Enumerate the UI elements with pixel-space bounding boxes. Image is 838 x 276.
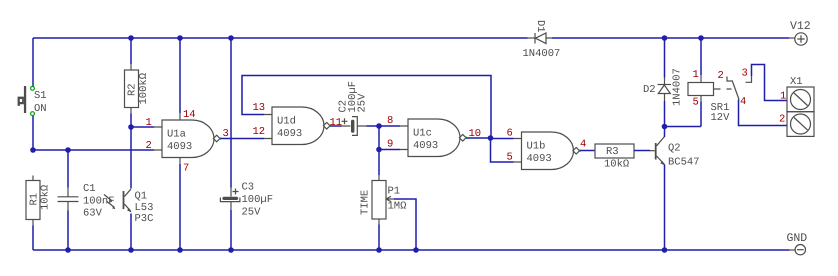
junction top rail at SR1 coil [698, 35, 704, 41]
wire junction down to U1b pin5 [491, 138, 514, 162]
svg-text:S1: S1 [34, 90, 47, 102]
wire contact pin3 to X1 pin1 [752, 65, 788, 101]
svg-text:V12: V12 [790, 20, 811, 33]
svg-text:1: 1 [780, 91, 786, 103]
supply V12 [787, 20, 811, 45]
svg-text:4093: 4093 [277, 128, 302, 140]
svg-text:25V: 25V [357, 93, 369, 113]
resistor R2 [125, 38, 151, 127]
nand gate U1a 4093 [146, 109, 229, 175]
wire node row to U1a pin2 [33, 149, 154, 151]
svg-text:12V: 12V [711, 112, 731, 124]
diode D1 1N4007 [523, 20, 561, 60]
svg-text:U1c: U1c [413, 127, 432, 139]
svg-text:63V: 63V [83, 208, 103, 220]
svg-text:1MΩ: 1MΩ [388, 201, 407, 213]
svg-text:BC547: BC547 [668, 157, 700, 169]
svg-text:C3: C3 [242, 182, 255, 194]
junction top rail at C3 [228, 35, 234, 41]
wire R3 to Q2 base [634, 150, 650, 152]
svg-text:C1: C1 [83, 183, 96, 195]
junction node row at S1/R1 [30, 147, 36, 153]
svg-text:4093: 4093 [167, 141, 192, 153]
svg-text:Q1: Q1 [135, 191, 148, 203]
junction C2 net at pin8 branch [376, 123, 382, 129]
resistor R3 [595, 144, 634, 171]
junction D2/coil/Q2 collector node [662, 124, 668, 130]
svg-text:12: 12 [253, 126, 266, 138]
relay coil SR1 [665, 38, 732, 127]
capacitor C3 [220, 38, 273, 250]
svg-text:R2: R2 [127, 83, 139, 96]
svg-text:8: 8 [387, 115, 393, 127]
svg-text:5: 5 [693, 97, 699, 109]
svg-text:1: 1 [146, 117, 152, 129]
svg-text:13: 13 [253, 102, 266, 114]
svg-text:6: 6 [507, 128, 513, 140]
svg-text:5: 5 [507, 152, 513, 164]
junction bottom rail at P1 [376, 247, 382, 253]
svg-text:14: 14 [183, 109, 196, 121]
junction bottom rail at Q2 emitter [662, 247, 668, 253]
wire R2/Q1 node to U1a pin1 [131, 126, 154, 128]
junction bottom rail at P1 wiper [413, 247, 419, 253]
svg-text:4093: 4093 [527, 153, 552, 165]
wire junction to U1b pin6 [491, 138, 514, 140]
wire Q2 collector [664, 127, 666, 138]
nand gate U1c 4093 [387, 115, 481, 157]
nand gate U1b 4093 [507, 128, 587, 170]
switch S1 [18, 86, 47, 116]
svg-text:9: 9 [387, 139, 393, 151]
svg-text:1: 1 [693, 69, 699, 81]
wire U1a pin7 to ground rail [179, 164, 181, 250]
svg-text:1N4007: 1N4007 [672, 68, 684, 106]
junction bottom rail at Q1 [128, 247, 134, 253]
wire U1c out to junction [467, 137, 491, 139]
wire U1d pin13 feedback from U1c output [242, 76, 491, 139]
junction pin9 node [376, 147, 382, 153]
resistor R1 [26, 176, 52, 226]
svg-text:U1b: U1b [527, 140, 546, 152]
junction node row at C1 [65, 147, 71, 153]
junction pin1 node [128, 124, 134, 130]
svg-text:4093: 4093 [413, 140, 438, 152]
svg-text:2: 2 [718, 70, 724, 82]
svg-text:P1: P1 [388, 186, 401, 198]
wire pin9 node to U1c pin9 [379, 149, 400, 151]
svg-text:100kΩ: 100kΩ [138, 73, 150, 105]
junction top rail at D2 [662, 35, 668, 41]
connector X1 [779, 76, 814, 136]
wire V12 top rail right segment [552, 37, 787, 39]
svg-text:4: 4 [740, 96, 746, 108]
nand gate U1d 4093 [253, 102, 343, 145]
svg-text:10kΩ: 10kΩ [604, 159, 629, 171]
junction bottom rail at C3 [228, 247, 234, 253]
svg-text:10kΩ: 10kΩ [40, 185, 52, 210]
junction top rail at R2 [128, 35, 134, 41]
svg-text:D2: D2 [643, 84, 656, 96]
svg-text:3: 3 [742, 68, 748, 80]
junction U1c output node [488, 135, 494, 141]
svg-text:D1: D1 [534, 20, 546, 33]
junction bottom rail at C1 [65, 247, 71, 253]
svg-text:11: 11 [330, 117, 343, 129]
supply GND [787, 232, 808, 255]
wire pin8 branch down to pin9 node [378, 126, 380, 150]
wire GND bottom rail [33, 226, 790, 251]
svg-text:25V: 25V [242, 207, 262, 219]
wire left vertical from rail to S1 [32, 38, 34, 87]
wire Q2 emitter to ground rail [664, 165, 666, 251]
transistor Q2 BC547 [650, 137, 700, 169]
wire V12 top rail left segment [33, 37, 528, 39]
svg-text:2: 2 [779, 114, 785, 126]
svg-text:7: 7 [183, 163, 189, 175]
svg-text:GND: GND [787, 232, 808, 245]
potentiometer P1 [360, 150, 417, 251]
svg-text:U1d: U1d [277, 115, 296, 127]
svg-text:R3: R3 [606, 146, 619, 158]
wire U1a out to U1d pin12 [221, 138, 265, 140]
junction top rail at U1a pin14 [177, 35, 183, 41]
diode D2 1N4007 [643, 38, 684, 127]
svg-text:100nF: 100nF [83, 196, 115, 208]
svg-text:P3C: P3C [135, 213, 154, 225]
svg-text:ON: ON [34, 103, 47, 115]
wire S1 bottom to node row [32, 116, 34, 151]
svg-text:2: 2 [146, 140, 152, 152]
wire contact pin4 to X1 pin2 [739, 100, 788, 126]
phototransistor Q1 [104, 127, 153, 250]
svg-text:1N4007: 1N4007 [523, 48, 561, 60]
svg-text:X1: X1 [790, 76, 803, 88]
relay contact SR1 pins 2/3/4 [718, 68, 752, 109]
svg-text:100µF: 100µF [242, 194, 274, 206]
wire U1b out to R3 [580, 150, 595, 152]
svg-text:4: 4 [580, 139, 586, 151]
wire U1a pin14 to rail [179, 38, 181, 113]
junction bottom rail at U1a pin7 [177, 247, 183, 253]
capacitor C1 [58, 150, 115, 250]
svg-text:TIME: TIME [360, 190, 372, 215]
capacitor C2 [331, 81, 401, 135]
svg-text:Q2: Q2 [668, 143, 681, 155]
svg-text:U1a: U1a [167, 128, 186, 140]
